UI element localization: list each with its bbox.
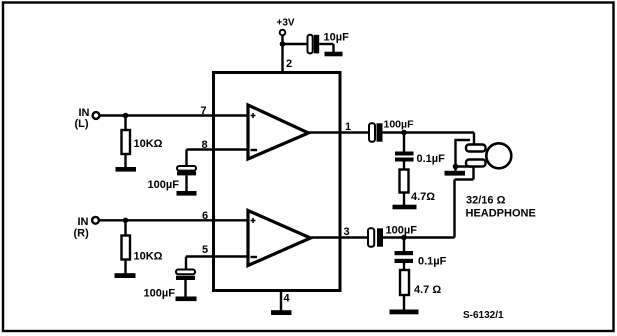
node: junction at IN(R) — [123, 218, 129, 224]
svg-text:4.7 Ω: 4.7 Ω — [414, 284, 441, 296]
capacitor 100µF (output coupling, ch 3) — [368, 225, 417, 247]
wire: pin 3 output to coupling cap — [311, 236, 369, 238]
svg-text:HEADPHONE: HEADPHONE — [466, 208, 536, 220]
op-amp A2 (bottom) — [248, 211, 311, 266]
svg-text:7: 7 — [201, 105, 207, 117]
IC U1 package outline — [214, 73, 341, 291]
ground (L input resistor) — [116, 167, 137, 172]
node: jack ground junction — [453, 164, 459, 170]
svg-text:100µF: 100µF — [384, 119, 415, 131]
svg-text:2: 2 — [286, 58, 292, 70]
svg-text:6: 6 — [202, 210, 208, 222]
wire: IN(L) to pin 7 (+ input of A1) — [99, 114, 248, 116]
wire: +3V to pin 2 and 10µF — [283, 35, 308, 72]
headphone label — [466, 195, 536, 220]
svg-text:1: 1 — [345, 121, 351, 133]
svg-text:0.1µF: 0.1µF — [417, 153, 446, 165]
capacitor 100µF (pin 5 bypass, R) — [144, 270, 196, 300]
wire: cap to headphone tip contact — [383, 133, 475, 146]
ground (ch 1 4.7Ω) — [393, 205, 417, 210]
wire: pin 8 (- input of A1) to 100µF cap — [187, 150, 249, 167]
resistor 4.7Ω (ch 3) — [400, 263, 441, 310]
headphone earpiece — [486, 143, 511, 168]
svg-text:0.1µF: 0.1µF — [418, 256, 447, 268]
svg-text:100µF: 100µF — [144, 288, 176, 300]
svg-text:32/16 Ω: 32/16 Ω — [466, 195, 506, 207]
svg-text:10µF: 10µF — [324, 32, 350, 44]
capacitor 100µF (output coupling, ch 1) — [369, 119, 414, 142]
svg-text:3: 3 — [344, 226, 350, 238]
ground (pin 4) — [271, 310, 292, 315]
svg-text:8: 8 — [202, 139, 208, 151]
headphone ring contact — [466, 160, 486, 167]
op-amp A1 (top) — [248, 105, 309, 159]
svg-text:4: 4 — [284, 293, 291, 305]
capacitor 10µF (supply bypass) — [308, 32, 350, 54]
svg-text:(L): (L) — [75, 118, 89, 130]
wire: pin 1 output to coupling cap — [309, 131, 370, 133]
svg-text:(R): (R) — [74, 228, 90, 240]
wire: cap to headphone ring contact — [383, 167, 474, 238]
input terminal IN (L) — [75, 107, 100, 130]
resistor 4.7Ω (ch 1) — [400, 162, 436, 206]
ground (ch 3 4.7Ω) — [390, 310, 419, 315]
svg-text:+3V: +3V — [277, 18, 295, 29]
ground (headphone jack) — [445, 167, 466, 176]
wire: IN(R) to pin 6 (+ input of A2) — [99, 219, 248, 221]
ground (10µF cap) — [325, 52, 343, 57]
wire: pin 5 (- input of A2) to 100µF cap — [186, 257, 248, 271]
input terminal IN (R) — [74, 216, 99, 240]
svg-text:10KΩ: 10KΩ — [134, 138, 163, 150]
svg-text:S-6132/1: S-6132/1 — [463, 310, 504, 321]
supply terminal +3V — [277, 18, 295, 36]
resistor 10KΩ (right input, R) — [122, 220, 163, 273]
resistor 10KΩ (left input, L) — [122, 116, 163, 168]
node: junction at IN(L) — [123, 113, 129, 119]
capacitor 0.1µF (ch 1) — [395, 133, 445, 166]
ground (R 100µF cap) — [176, 297, 197, 302]
svg-text:5: 5 — [202, 244, 208, 256]
capacitor 0.1µF (ch 3) — [395, 238, 447, 268]
svg-text:100µF: 100µF — [148, 179, 180, 191]
node: junction ch1 — [401, 130, 407, 136]
svg-text:10KΩ: 10KΩ — [134, 251, 163, 263]
svg-text:4.7Ω: 4.7Ω — [411, 191, 435, 203]
svg-text:100µF: 100µF — [386, 225, 418, 237]
node: junction ch3 — [401, 235, 407, 241]
headphone jack sleeve bracket — [456, 140, 475, 167]
capacitor 100µF (pin 8 bypass, L) — [148, 166, 197, 191]
ground (L 100µF cap) — [177, 191, 197, 196]
svg-text:IN: IN — [78, 216, 89, 228]
ground (R input resistor) — [115, 273, 136, 278]
node: +3V junction — [280, 41, 286, 47]
pin 4 stub and label — [281, 291, 291, 311]
headphone tip contact — [466, 145, 486, 152]
